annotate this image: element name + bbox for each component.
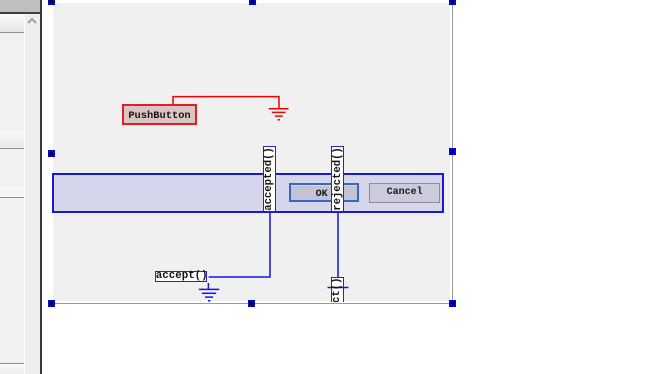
palette separator 4 xyxy=(0,363,24,364)
palette item 1 (gradient) xyxy=(0,14,24,32)
palette item 3 xyxy=(0,185,24,197)
selection handle bottom-left xyxy=(48,300,55,307)
palette separator 2 xyxy=(0,148,24,149)
button Cancel xyxy=(369,183,440,203)
reject() rotated text xyxy=(331,278,343,329)
component PushButton xyxy=(122,104,197,125)
selection outline bottom xyxy=(52,303,453,304)
wire red from PushButton to ground xyxy=(165,90,290,125)
signal label rejected() xyxy=(331,146,344,212)
selection outline right xyxy=(452,4,453,304)
form canvas (selected, light gray) xyxy=(53,3,451,301)
selection handle top-left xyxy=(48,0,55,5)
wire blue rejected() down to reject() xyxy=(333,210,343,280)
reject() pin stubs wire xyxy=(327,277,349,303)
selection handle bottom-right xyxy=(449,300,456,307)
reject() box xyxy=(331,277,344,309)
wire blue accepted() down-left to accept() xyxy=(205,210,275,282)
ground symbol blue under accept() xyxy=(195,282,225,304)
selection handle top-right xyxy=(449,0,456,5)
palette item 5 (gradient) xyxy=(0,364,24,374)
dialog button-bar (lavender) xyxy=(52,173,444,213)
signal label accepted() xyxy=(263,146,276,212)
ground symbol red xyxy=(265,105,295,123)
selection handle mid-right xyxy=(449,148,456,155)
scrollbar track xyxy=(25,14,40,374)
palette separator 1 xyxy=(0,32,24,33)
scrollbar up-arrow chevron xyxy=(26,15,38,27)
palette item 2 (gradient) xyxy=(0,131,24,148)
palette header dark underline xyxy=(0,12,41,14)
palette header bar xyxy=(0,0,40,12)
selection handle mid-left xyxy=(48,150,55,157)
window dark divider line xyxy=(40,0,42,374)
selection handle top-middle xyxy=(249,0,256,5)
slot component reject() (clipped at form edge) xyxy=(327,277,349,303)
palette separator 3 xyxy=(0,197,24,198)
left palette panel xyxy=(0,0,24,374)
button OK xyxy=(289,183,360,202)
selection handle bottom-middle xyxy=(248,300,255,307)
slot label accept() xyxy=(155,271,207,283)
